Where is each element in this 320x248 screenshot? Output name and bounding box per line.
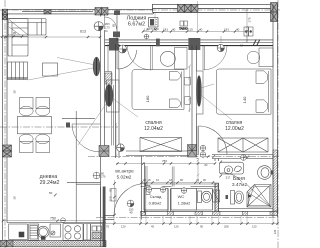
svg-text:120: 120 [273,229,277,234]
shaft rect wc-bath [213,190,220,202]
svg-text:30: 30 [13,90,17,94]
wall sklad-wc row top [141,184,219,187]
bold ticks bedroom wall right end [243,156,249,159]
label wc [178,194,192,206]
svg-text:40: 40 [172,28,176,32]
pier top-left corner hatched [2,9,8,19]
bed 1 [132,70,184,110]
svg-text:WC: WC [178,194,185,199]
svg-text:вх.антре: вх.антре [115,169,134,174]
symbol circle wc [181,188,187,194]
svg-text:613: 613 [80,30,86,34]
wall inter-bedroom [192,46,197,152]
svg-text:6.67м2: 6.67м2 [128,22,145,28]
wall sklad-wc [168,189,171,212]
svg-text:12.00м2: 12.00м2 [225,126,244,132]
pier bottom-left corner [0,241,13,247]
kitchen round bowl [37,226,49,239]
nightstand bed1 bottom [184,97,190,105]
dim ticks window band right [253,40,260,46]
wall right hatch lower [273,150,278,211]
pier left wall hatched [3,145,12,157]
symbol circle near balcony door [94,22,103,31]
svg-text:85: 85 [112,24,116,27]
dim vertical bath west [197,159,199,183]
svg-text:115: 115 [188,28,193,32]
svg-text:Склад: Склад [150,194,162,199]
loggia VK squares [244,27,253,36]
dim line vertical hall entrance [113,180,116,216]
dim vertical hall [115,123,117,157]
svg-text:120: 120 [121,224,126,228]
shaft inner lines [105,44,114,146]
radiator living room [93,57,100,76]
svg-text:75: 75 [106,224,109,228]
extension tick window band [220,36,222,43]
loggia EL box [179,21,188,31]
symbol circles sklad [146,187,166,193]
desk bedroom2 [259,48,273,67]
chair circle bedroom1 [160,51,175,66]
svg-text:115: 115 [144,28,149,32]
cabinet below sofa [8,62,28,80]
wall top facade living room (window band) [3,10,154,14]
dining table [18,116,52,134]
axis horizontal mid living [0,126,118,128]
label loggia [127,16,147,28]
dim vertical right side [246,9,248,42]
kitchen narrow cabinet [84,224,91,240]
symbol circle hall [127,200,134,207]
chair bottom-right [36,134,50,152]
chair top-left [19,98,33,116]
loggia west parapet [113,10,120,41]
kitchen washer [90,224,102,240]
symbol circle kitchen [61,218,66,223]
door wc leaf [172,167,174,187]
window mullion pier [44,10,51,14]
svg-text:3.47м2: 3.47м2 [232,182,248,188]
axis horizontal corridor [88,156,280,158]
symbol circle corridor end second [200,152,206,158]
pier window band mullion 1 [156,39,160,47]
wall loggia top [153,4,278,14]
door bath arc [220,173,242,183]
sofa L-shape [8,19,46,57]
dim row numbers [143,178,206,182]
wall bath west hatch [215,183,219,211]
door living-hall arc [72,124,100,152]
svg-text:5.02м2: 5.02м2 [117,175,132,180]
kitchen fridge [9,224,28,240]
wall bottom right band [105,211,278,219]
symbol circle hall north [117,144,125,152]
entrance door panel [111,189,116,202]
pier hall north hatched [99,146,109,157]
pier loggia top hatched [178,4,198,12]
axis vertical left [4,0,6,248]
circle lamp bedroom2 [247,51,260,64]
pier on facade hatched [95,8,108,16]
svg-text:120: 120 [252,224,257,228]
svg-text:750: 750 [162,159,167,163]
svg-text:120: 120 [174,224,179,228]
wall bottom-left crosshatch [0,241,106,247]
symbol circle kitchen zone [93,172,100,179]
svg-text:750: 750 [50,217,56,221]
svg-text:90: 90 [200,224,203,228]
svg-text:0.80м2: 0.80м2 [149,201,163,206]
svg-text:30: 30 [13,196,17,200]
wall hall north + pier [105,151,141,156]
axis vertical right [277,0,279,248]
wall right outer [273,5,278,218]
bath toilet [231,191,244,205]
leader lines bedroom radiator [201,84,232,120]
dim numbers loggia [144,28,240,32]
dim row above rooms [140,181,215,184]
extension lines loggia dims [155,1,247,43]
kitchen tall unit [67,182,101,184]
kitchen divider dark box [66,123,70,128]
axis horizontal bottom right [96,217,280,219]
shaft hatch strip [105,73,112,84]
dim line bottom right [103,222,278,224]
dim line loggia top [142,30,248,32]
svg-text:45: 45 [129,211,133,215]
shower arrow mark [248,194,252,198]
window band loggia south [105,40,273,46]
svg-text:45: 45 [151,224,154,228]
svg-text:50: 50 [49,191,53,195]
wall left outer [3,10,8,241]
room wc box [171,189,213,211]
wall bath west [215,159,219,213]
pier bedrooms-wall hatched [188,145,197,158]
radiator bedroom niche [197,71,204,114]
piers bottom wall hatched [141,211,278,215]
bath small dark item [226,195,229,199]
loggia EL cabinet box [149,18,159,28]
svg-text:40: 40 [199,28,203,32]
bath bottom inner line [219,208,274,210]
dim line vertical bedroom1 [188,65,191,113]
wardrobe bedroom1 [140,138,182,152]
symbol circle bedroom2 entry [217,44,224,51]
kitchen zone divider line [62,111,95,223]
hall symbol text [129,208,134,215]
leader lines living radiator [28,58,138,146]
wall W1 hatch bottom dark [103,187,106,247]
pier top-right corner hatched [271,3,278,22]
svg-text:208: 208 [224,224,229,228]
label living room [40,174,60,186]
door bedroom1 leaf+arc [117,50,137,69]
wall bedrooms south [141,151,274,177]
svg-text:181: 181 [163,28,168,32]
wall W1 living east [101,14,105,217]
coffee table [43,63,58,76]
chair top-right [36,98,50,116]
kitchen stove [63,224,83,241]
dim ticks left wall [0,35,23,38]
symbol circle bedroom1 entry [119,45,127,53]
bath sink cabinet [219,162,243,174]
bed 2 [216,69,271,114]
label bath [232,176,248,188]
symbol circles corridor end [200,145,206,151]
bath washbasin oval [258,166,274,180]
svg-text:12.04м2: 12.04м2 [144,126,163,132]
svg-text:Баня: Баня [233,176,245,182]
kitchen sink [29,224,39,241]
wall hall east [142,156,145,220]
label hall [115,169,134,180]
svg-text:ТАБЛО: ТАБЛО [179,27,188,31]
svg-text:30: 30 [240,44,243,48]
dim line living top [4,36,101,38]
dim line bottom left [2,220,106,222]
svg-text:210: 210 [109,196,113,201]
radiator shaft niche [105,80,119,112]
door loggia-living arc [105,17,117,29]
symbol circle bath [241,155,247,161]
chair bottom-left [19,134,33,152]
label bedroom1 [144,120,163,132]
dim numbers bottom right [106,224,257,228]
svg-text:140: 140 [242,96,247,103]
nightstand bed1 top [184,77,190,85]
axis horizontal top [0,9,280,11]
door bedroom2 leaf+arc [197,126,227,155]
corridor dim line [116,162,216,165]
label bedroom2 [225,120,244,132]
entrance door leaf+arc [114,184,146,216]
svg-text:175: 175 [248,17,252,22]
svg-text:40: 40 [236,28,240,32]
door sklad leaf [145,166,147,187]
desk bedroom1 [175,48,188,70]
kitchen zone symbol text [101,172,106,179]
label sklad [149,194,163,206]
svg-text:217: 217 [226,176,231,180]
svg-text:40: 40 [154,28,158,32]
symbol loggia vent [144,34,149,39]
room sklad box [144,186,168,211]
svg-text:1.28м2: 1.28м2 [178,201,192,206]
loggia door bedroom1 leaf+arc [127,46,152,70]
pier window band mid dark [188,38,200,50]
svg-text:181: 181 [224,28,229,32]
extension lines bottom dims [105,216,278,225]
svg-text:180: 180 [145,95,150,102]
bath shower [247,185,271,208]
svg-text:29.24м2: 29.24м2 [40,180,60,186]
toilet wc [198,191,212,203]
kitchen cabinet small [50,224,61,237]
wardrobe bedroom2 [218,138,268,152]
svg-text:270: 270 [101,175,106,179]
wall W2 bedroom1 west [116,44,120,158]
pier window band west dark [109,38,119,51]
kitchen counter edge [7,222,105,224]
svg-text:95: 95 [13,31,16,35]
loggia door bedroom2 leaf+arc [203,46,227,70]
